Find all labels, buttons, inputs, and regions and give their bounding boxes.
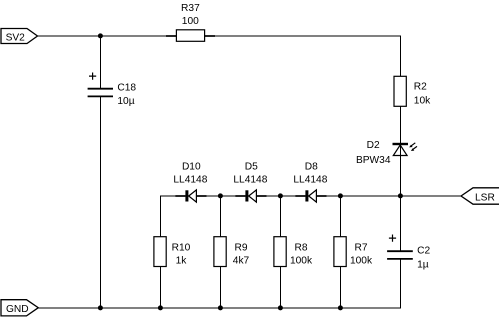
wire R37 to right corner xyxy=(205,35,402,37)
svg-text:LL4148: LL4148 xyxy=(233,174,267,185)
wire C18 branch lower xyxy=(100,97,102,308)
svg-text:R2: R2 xyxy=(414,82,427,93)
svg-text:R9: R9 xyxy=(234,243,247,254)
wire R10 lower xyxy=(160,267,162,309)
svg-text:100: 100 xyxy=(182,16,199,27)
svg-text:D5: D5 xyxy=(245,161,258,172)
svg-text:BPW34: BPW34 xyxy=(356,155,391,166)
junction dot row x400 xyxy=(398,193,403,198)
diode D8 xyxy=(293,161,327,202)
svg-text:D8: D8 xyxy=(305,161,318,172)
svg-text:D10: D10 xyxy=(182,161,201,172)
svg-text:SV2: SV2 xyxy=(6,32,26,43)
svg-text:100k: 100k xyxy=(350,256,373,267)
wire D5 to D8 xyxy=(257,195,306,197)
wire junction down to C2 xyxy=(400,196,402,251)
pin stubs D10 xyxy=(175,195,206,197)
connector LSR xyxy=(461,188,499,204)
svg-text:D2: D2 xyxy=(367,140,380,151)
svg-text:R7: R7 xyxy=(354,243,367,254)
junction dot top at C18 xyxy=(98,33,103,38)
wire right vertical top to R2 xyxy=(400,36,402,77)
wire R8 branch xyxy=(280,196,282,308)
wire D8 to LSR xyxy=(317,195,462,197)
wire R9 branch xyxy=(220,196,222,308)
svg-text:1k: 1k xyxy=(176,256,188,267)
svg-text:LL4148: LL4148 xyxy=(293,174,327,185)
resistor R10 xyxy=(154,237,191,267)
wire R2 to D2 and through to junction xyxy=(400,106,402,196)
wire LSR row left corner to D10 xyxy=(160,196,185,237)
wire D10 to D5 xyxy=(197,195,246,197)
junction dot row x220 xyxy=(218,193,223,198)
svg-text:LL4148: LL4148 xyxy=(173,174,207,185)
wire top SV2 to R37 xyxy=(38,35,177,37)
pin stubs D5 xyxy=(235,195,266,197)
junction dot row x340 xyxy=(338,193,343,198)
wire R7 branch xyxy=(340,196,342,308)
svg-text:R8: R8 xyxy=(294,243,307,254)
capacitor C18 xyxy=(88,73,137,107)
svg-text:10µ: 10µ xyxy=(117,96,134,107)
svg-text:4k7: 4k7 xyxy=(233,256,250,267)
pin stubs D8 xyxy=(295,195,326,197)
resistor R9 xyxy=(214,237,250,267)
connector SV2 xyxy=(1,29,38,44)
svg-text:LSR: LSR xyxy=(475,193,495,204)
pin stubs R37 xyxy=(166,35,215,37)
svg-text:100k: 100k xyxy=(290,256,313,267)
resistor R7 xyxy=(334,237,373,267)
connector GND xyxy=(1,300,38,316)
wire C2 bottom to bottom rail xyxy=(400,259,402,308)
svg-text:1µ: 1µ xyxy=(417,260,429,271)
resistor R8 xyxy=(274,237,313,267)
junction dot bottom x100 xyxy=(98,305,103,310)
photodiode D2 xyxy=(356,140,417,166)
svg-text:C2: C2 xyxy=(417,246,430,257)
junction dot row x280 xyxy=(278,193,283,198)
resistor R2 xyxy=(394,76,431,106)
svg-text:GND: GND xyxy=(6,304,29,315)
wire bottom rail xyxy=(38,307,401,309)
junction dot bottom x340 xyxy=(338,305,343,310)
capacitor C2 xyxy=(387,235,430,271)
junction dot bottom x220 xyxy=(218,305,223,310)
svg-text:10k: 10k xyxy=(414,96,431,107)
resistor R37 xyxy=(176,3,204,41)
svg-text:R37: R37 xyxy=(181,3,200,14)
junction dot bottom x280 xyxy=(278,305,283,310)
diode D10 xyxy=(173,161,207,202)
svg-text:R10: R10 xyxy=(172,243,191,254)
diode D5 xyxy=(233,161,267,202)
wire C18 branch upper xyxy=(100,36,102,89)
svg-text:C18: C18 xyxy=(117,83,136,94)
junction dot bottom x160 xyxy=(158,305,163,310)
